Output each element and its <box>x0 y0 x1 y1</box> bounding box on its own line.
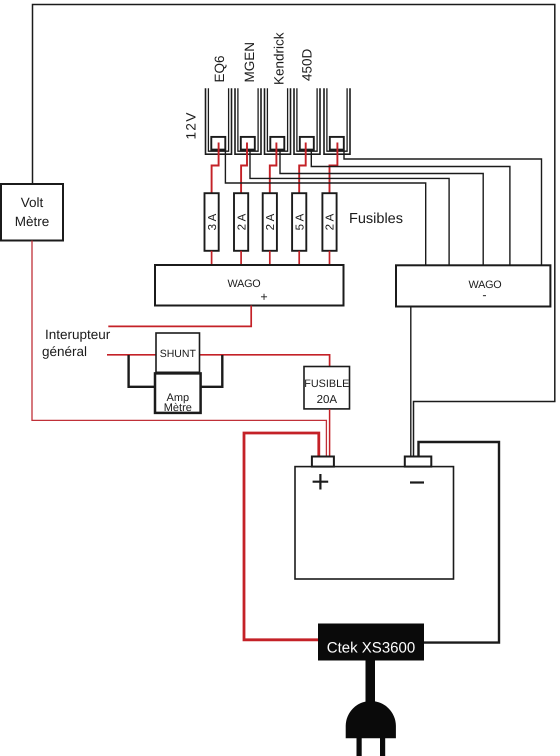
mains plug prong right <box>380 738 385 756</box>
fuse F5 (2A) <box>322 193 336 251</box>
fuse F2 (2A) <box>234 193 248 251</box>
fuse F3 (2A) <box>263 193 277 251</box>
wire: Volt Metre negative, up over top edge, down right side to battery minus <box>33 5 555 458</box>
label Interupteur general (main switch) <box>42 327 111 359</box>
wire: red from Volt Metre to battery plus terminal <box>32 241 326 458</box>
svg-text:3 A: 3 A <box>207 213 219 230</box>
svg-text:+: + <box>260 290 267 304</box>
shunt (SHUNT) <box>156 333 200 372</box>
battery plus symbol <box>313 474 329 490</box>
wire: red from WAGO plus down and left to main switch <box>108 306 251 327</box>
fuse F1 (3A) <box>205 193 219 251</box>
svg-text:5 A: 5 A <box>294 213 306 230</box>
connector socket J3 (double-wall U receptacle) <box>265 88 291 154</box>
svg-text:12V: 12V <box>183 111 198 139</box>
mains plug prong left <box>357 738 362 756</box>
wire: thick black battery minus to Ctek charger <box>419 442 500 643</box>
svg-text:EQ6: EQ6 <box>212 55 227 82</box>
wire: black from WAGO minus bottom to battery minus terminal <box>410 307 412 458</box>
wire: black negative from socket J4 to WAGO minus bus <box>311 151 510 266</box>
wire: red positive from socket J2 contact to fuse F2 <box>241 143 247 194</box>
svg-text:20A: 20A <box>317 394 338 406</box>
wire: red positive from socket J4 contact to fuse F4 <box>299 143 306 194</box>
svg-text:général: général <box>42 344 87 359</box>
wire: red from fuse F2 to WAGO plus bus <box>240 251 242 266</box>
wire: red from fuse F4 to WAGO plus bus <box>298 251 300 266</box>
svg-text:450D: 450D <box>299 48 314 81</box>
svg-text:Mètre: Mètre <box>15 214 50 229</box>
connector socket J2 (double-wall U receptacle) <box>235 88 261 154</box>
wire: black negative from socket J3 to WAGO minus bus <box>280 151 483 266</box>
wire: black negative from socket J2 to WAGO minus bus <box>250 151 449 266</box>
ammeter (Amp Metre) <box>155 373 201 414</box>
battery minus terminal post <box>405 457 432 467</box>
connector socket J1 (double-wall U receptacle) <box>206 88 232 154</box>
svg-text:FUSIBLE: FUSIBLE <box>304 378 349 390</box>
battery <box>295 467 454 579</box>
WAGO minus distribution block <box>396 265 550 306</box>
svg-text:SHUNT: SHUNT <box>160 348 197 360</box>
svg-text:-: - <box>482 288 486 302</box>
svg-text:MGEN: MGEN <box>242 42 257 83</box>
svg-text:2 A: 2 A <box>236 213 248 230</box>
wire: red positive from socket J1 contact to fuse F1 <box>212 143 219 194</box>
svg-text:Interupteur: Interupteur <box>45 327 111 342</box>
svg-text:Kendrick: Kendrick <box>271 32 286 85</box>
wire: red from fuse F5 to WAGO plus bus <box>329 251 331 266</box>
svg-text:2 A: 2 A <box>265 213 277 230</box>
wire: red positive from socket J3 contact to fuse F3 <box>270 143 277 194</box>
WAGO plus distribution block <box>155 265 344 306</box>
connector socket J5 (double-wall U receptacle) <box>324 88 350 154</box>
fuse F4 (5A) <box>292 193 306 251</box>
svg-text:2 A: 2 A <box>325 213 337 230</box>
voltmeter (Volt Metre) <box>1 184 63 241</box>
wire: thick red battery plus to Ctek charger <box>244 433 319 640</box>
wire: black negative from socket J5 to WAGO minus bus <box>344 151 542 266</box>
battery plus terminal post <box>312 457 334 467</box>
wire: red from main switch through SHUNT to FUSIBLE 20A <box>107 355 330 367</box>
svg-text:Ctek XS3600: Ctek XS3600 <box>327 640 415 657</box>
svg-text:Volt: Volt <box>21 195 44 210</box>
wire: black sense leads from shunt to Amp Metre <box>129 355 223 387</box>
wire: red from fuse F1 to WAGO plus bus <box>211 251 213 266</box>
charger Ctek XS3600 <box>318 624 424 661</box>
svg-text:Fusibles: Fusibles <box>349 211 403 227</box>
svg-text:Mètre: Mètre <box>164 402 192 414</box>
mains plug body <box>346 701 396 738</box>
main fuse FUSIBLE 20A <box>304 367 350 409</box>
mains cable from charger <box>366 661 376 703</box>
svg-text:WAGO: WAGO <box>228 278 261 290</box>
wire: red from fuse F3 to WAGO plus bus <box>269 251 271 266</box>
wire: red positive from socket J5 contact to fuse F5 <box>330 143 338 194</box>
battery minus symbol <box>410 481 424 483</box>
connector socket J4 (double-wall U receptacle) <box>294 88 320 154</box>
wire: red from FUSIBLE 20A to battery plus terminal <box>329 409 331 457</box>
wire: black negative from socket J1 to WAGO minus bus <box>225 151 425 266</box>
